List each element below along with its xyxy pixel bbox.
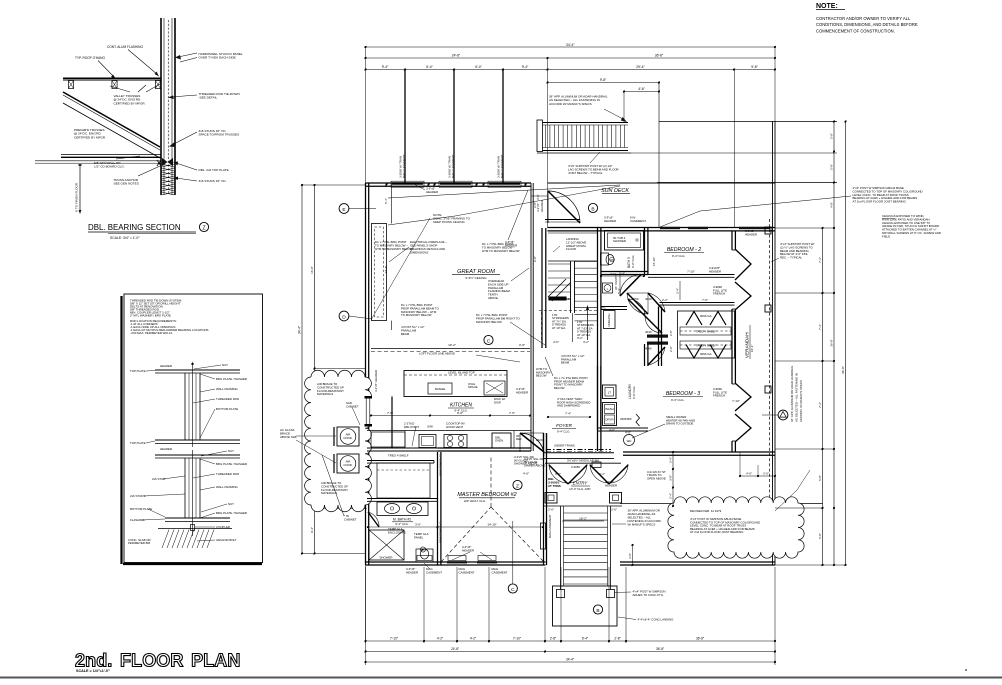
svg-text:4′-4″x6′-4″ CONC LANDING: 4′-4″x6′-4″ CONC LANDING — [638, 618, 675, 622]
under trans dashed — [546, 449, 611, 451]
svg-text:5/8″ DRYWALL OR 1/2″ CD BOARD: 5/8″ DRYWALL OR 1/2″ CD BOARD CLG. — [94, 161, 125, 169]
foyer door arc top — [520, 432, 544, 434]
svg-text:BOTTOM PLATE: BOTTOM PLATE — [216, 407, 238, 411]
svg-text:14′-10″: 14′-10″ — [487, 523, 496, 527]
title: 2nd. FLOOR PLAN — [75, 651, 241, 674]
bifold top — [686, 312, 702, 326]
svg-text:24′-8″: 24′-8″ — [452, 54, 461, 58]
closet outline — [678, 311, 735, 358]
svg-text:36″ APP. ALUMINUM OR ADAR HAND: 36″ APP. ALUMINUM OR ADAR HANDRAIL — [790, 365, 794, 422]
svg-text:FOYER: FOYER — [556, 423, 573, 428]
circle L — [606, 294, 608, 296]
deck step edge — [545, 219, 580, 221]
svg-text:UNDER TREAD: UNDER TREAD — [549, 297, 570, 301]
sun deck boundary — [548, 182, 776, 184]
svg-text:NUT: NUT — [228, 502, 234, 506]
bottom wall with windows — [366, 561, 546, 563]
verandah posts — [765, 227, 771, 234]
svg-text:HEADER: HEADER — [160, 364, 172, 368]
circle A — [778, 410, 788, 420]
svg-text:HEADER: HEADER — [160, 447, 172, 451]
svg-text:COND.: COND. — [343, 436, 353, 440]
svg-text:3′-6″: 3′-6″ — [415, 523, 421, 527]
svg-text:COND.: COND. — [343, 463, 353, 467]
svg-text:UNDER TRANS: UNDER TRANS — [554, 444, 575, 448]
svg-text:9080 TEMP’D GL.: 9080 TEMP’D GL. — [439, 519, 443, 543]
hall door arcs — [627, 292, 648, 294]
bedroom2 west wall — [644, 228, 646, 275]
svg-text:AS SELECTED – ALL FASTENING IN: AS SELECTED – ALL FASTENING IN — [795, 373, 799, 422]
verandah east wall — [731, 231, 733, 250]
svg-text:LT: LT — [608, 391, 611, 395]
detail: DBL. BEARING SECTION — [35, 18, 175, 214]
svg-text:2′-0″: 2′-0″ — [533, 202, 537, 208]
svg-text:C: C — [487, 338, 491, 344]
ac condenser 2 — [337, 454, 359, 473]
small rects near foyer top (black) — [592, 462, 601, 468]
wc toilet bottom — [416, 549, 433, 562]
interior dim lines bedrooms — [679, 281, 681, 300]
svg-text:9′-4″ CLG.: 9′-4″ CLG. — [671, 398, 684, 402]
svg-text:9′-0″: 9′-0″ — [533, 256, 537, 262]
svg-text:2′-8″: 2′-8″ — [614, 637, 621, 641]
revision cloud left — [305, 370, 372, 511]
svg-text:HEADER: HEADER — [540, 200, 544, 212]
exterior wall left — [365, 183, 367, 565]
svg-text:7′-10″: 7′-10″ — [732, 399, 740, 403]
bath2 door arc — [368, 512, 379, 527]
svg-text:7′-4″: 7′-4″ — [818, 402, 822, 408]
svg-text:TOP PLATE: TOP PLATE — [130, 441, 146, 445]
exterior wall top with windows — [366, 182, 532, 184]
mbr east wall — [543, 433, 545, 452]
svg-text:5′-4″: 5′-4″ — [384, 198, 388, 204]
svg-text:8¾ x 7 PSL BRG POINT TO MASONR: 8¾ x 7 PSL BRG POINT TO MASONRY BELOW – … — [375, 240, 413, 251]
svg-text:MAG CASEMENT: MAG CASEMENT — [500, 154, 504, 178]
svg-text:36′-8″: 36′-8″ — [830, 339, 834, 346]
svg-text:34′-4″: 34′-4″ — [298, 325, 302, 334]
svg-text:5′-8″: 5′-8″ — [830, 164, 834, 170]
circle D — [339, 311, 349, 321]
svg-text:36′-8″: 36′-8″ — [841, 365, 845, 374]
svg-text:29′-4″: 29′-4″ — [636, 65, 645, 69]
svg-text:TREO 4 SHELF: TREO 4 SHELF — [388, 454, 409, 458]
svg-text:2′-8″: 2′-8″ — [550, 637, 557, 641]
circle B deck — [588, 203, 597, 212]
ac condenser 1 — [337, 427, 359, 446]
svg-text:HIP VAULT CLG.: HIP VAULT CLG. — [464, 499, 486, 503]
svg-text:2′-2″: 2′-2″ — [662, 298, 668, 302]
svg-text:WALL FRAMING: WALL FRAMING — [216, 485, 239, 489]
svg-text:TREO 4 SHELF: TREO 4 SHELF — [696, 344, 717, 348]
svg-text:2′-4″: 2′-4″ — [669, 457, 673, 463]
svg-text:VALLEY TRUSSES @ 24″OC. ENG’RD: VALLEY TRUSSES @ 24″OC. ENG’RD CERTIFIED… — [114, 94, 146, 105]
svg-text:19′-2″: 19′-2″ — [448, 343, 457, 347]
wh circle — [624, 435, 635, 446]
svg-text:DBL. 2x6 TOP PLATE: DBL. 2x6 TOP PLATE — [199, 168, 229, 172]
detail A annotations — [74, 45, 243, 186]
svg-text:34′-4″: 34′-4″ — [566, 43, 575, 47]
revision cloud bottom — [668, 497, 804, 558]
washer dryer — [603, 403, 617, 426]
bedroom2 south wall — [648, 274, 735, 276]
foyer door arc — [519, 433, 521, 452]
svg-text:BEDROOM - 3: BEDROOM - 3 — [666, 391, 700, 397]
svg-text:REVISED FEB. 12 1979: REVISED FEB. 12 1979 — [690, 509, 722, 513]
svg-text:MAG CASEMENT: MAG CASEMENT — [548, 514, 552, 538]
dim row bottom overall — [366, 661, 776, 663]
svg-text:MAG CASEMENT: MAG CASEMENT — [402, 154, 406, 178]
svg-text:9080 TEMP’D GL.: 9080 TEMP’D GL. — [439, 452, 443, 476]
svg-text:PREFAB’D TRUSSES @ 24″OC. ENG’: PREFAB’D TRUSSES @ 24″OC. ENG’RD CERTIFI… — [74, 128, 106, 139]
kitchen south wall / mbr north — [438, 447, 532, 449]
deck edge lines right — [659, 121, 837, 123]
svg-text:7′-10″: 7′-10″ — [390, 637, 399, 641]
svg-text:9′-6″: 9′-6″ — [457, 411, 463, 415]
cooktop — [444, 435, 467, 448]
entry stair — [560, 506, 562, 586]
verandah screen dashed — [769, 219, 771, 503]
svg-text:B: B — [596, 608, 599, 614]
great room leader diagonals — [388, 185, 620, 198]
entry posts — [545, 493, 557, 504]
svg-text:5′-4″: 5′-4″ — [617, 288, 621, 294]
svg-text:7′-4″: 7′-4″ — [565, 412, 571, 416]
entry arcs — [549, 464, 568, 483]
svg-text:NOTE:: NOTE: — [816, 3, 838, 10]
svg-text:4′-2″: 4′-2″ — [470, 637, 477, 641]
svg-text:4′-6″: 4′-6″ — [523, 472, 529, 476]
stairwell walls — [541, 228, 543, 348]
svg-text:36′-8″: 36′-8″ — [655, 54, 664, 58]
svg-text:VERANDAH: VERANDAH — [745, 332, 750, 358]
svg-text:9′-4″: 9′-4″ — [382, 65, 389, 69]
svg-text:MASTER BEDROOM #2: MASTER BEDROOM #2 — [457, 492, 516, 498]
svg-text:TYP. ROOF O′HANG: TYP. ROOF O′HANG — [75, 56, 105, 60]
svg-text:6′-4″: 6′-4″ — [426, 65, 433, 69]
fireplace — [372, 224, 387, 321]
svg-text:4040: 4040 — [645, 330, 652, 334]
svg-text:DRYR: DRYR — [605, 418, 613, 422]
svg-text:BRG PLATE / WASHER: BRG PLATE / WASHER — [216, 511, 247, 515]
great room east wall — [530, 183, 532, 306]
dim extensions bottom — [365, 567, 367, 643]
svg-text:2620: 2620 — [536, 438, 543, 442]
fridge corner — [513, 431, 515, 449]
hall walls — [601, 306, 627, 308]
svg-text:9090 GA.: 9090 GA. — [700, 314, 712, 318]
svg-text:COOKTOP W/ HOOD VENT: COOKTOP W/ HOOD VENT — [446, 422, 466, 429]
svg-text:2′-8″: 2′-8″ — [669, 346, 673, 352]
stair treads — [570, 261, 572, 313]
dim row bottom segments — [366, 640, 776, 642]
svg-text:LINEN/SH: LINEN/SH — [607, 314, 611, 327]
svg-text:24′-8″: 24′-8″ — [451, 647, 460, 651]
svg-text:4′-2″: 4′-2″ — [437, 637, 444, 641]
svg-text:9′-8″: 9′-8″ — [600, 78, 607, 82]
svg-text:3′-8″: 3′-8″ — [669, 475, 673, 481]
svg-text:9′-4″ CLG.: 9′-4″ CLG. — [672, 254, 685, 258]
svg-text:SCALE: 3/4″ = 1′-0″: SCALE: 3/4″ = 1′-0″ — [110, 236, 140, 240]
bedroom3 west wall — [644, 344, 646, 366]
svg-text:WC: WC — [610, 258, 615, 262]
svg-text:CONT. ALUM FLASHING: CONT. ALUM FLASHING — [107, 45, 143, 49]
stair break line — [548, 279, 566, 297]
svg-text:7′-6″: 7′-6″ — [509, 411, 515, 415]
circle C below — [508, 584, 517, 593]
foyer west wall — [543, 433, 545, 565]
svg-text:9′-4″ CLG.: 9′-4″ CLG. — [395, 522, 408, 526]
svg-text:9090 GA.: 9090 GA. — [700, 352, 712, 356]
svg-text:2668: 2668 — [544, 531, 548, 538]
svg-text:CONC. SLAB OR PERIMETER BM: CONC. SLAB OR PERIMETER BM — [128, 538, 151, 545]
svg-text:ENTRY: ENTRY — [573, 481, 589, 486]
modular bm — [544, 452, 614, 454]
svg-text:9F TUB 4 SHOWER: 9F TUB 4 SHOWER — [613, 236, 626, 243]
svg-text:36′-8″: 36′-8″ — [696, 637, 705, 641]
svg-text:TOP PLATE: TOP PLATE — [130, 369, 146, 373]
svg-text:D: D — [342, 314, 346, 320]
svg-text:2′-6″: 2′-6″ — [548, 508, 554, 512]
left wall window — [364, 398, 373, 424]
svg-text:2668 BIF: 2668 BIF — [620, 417, 632, 421]
svg-text:9′-4″: 9′-4″ — [522, 65, 529, 69]
dimension row top overall 34-4 — [366, 46, 776, 48]
svg-text:3-3″x5″ HEADER: 3-3″x5″ HEADER — [374, 370, 378, 392]
circle B stair — [593, 605, 602, 614]
svg-text:2nd. FLOOR PLAN: 2nd. FLOOR PLAN — [75, 651, 241, 671]
svg-text:3′-2″: 3′-2″ — [583, 340, 589, 344]
svg-text:NUT: NUT — [228, 449, 234, 453]
dim row bottom mid — [366, 651, 776, 653]
svg-text:E: E — [342, 207, 345, 213]
svg-text:BOTTOM PLATE: BOTTOM PLATE — [130, 507, 152, 511]
svg-text:9′-6½″ CEILING: 9′-6½″ CEILING — [465, 276, 487, 280]
riser dark — [549, 297, 567, 301]
kitchen island — [404, 371, 507, 397]
dim col right outer — [845, 122, 847, 566]
svg-text:Z: Z — [516, 483, 519, 489]
verandah bottom wall — [620, 561, 775, 563]
svg-text:36″ VANITY: 36″ VANITY — [614, 275, 618, 290]
svg-text:4040: 4040 — [645, 297, 652, 301]
svg-text:34′-4″: 34′-4″ — [566, 658, 575, 662]
circle Z — [513, 480, 522, 489]
svg-text:10′-0″ CLG. APP.: 10′-0″ CLG. APP. — [569, 487, 591, 491]
svg-text:WH: WH — [627, 439, 632, 443]
hip vault dashed — [441, 507, 491, 562]
kitchen stud post line — [391, 397, 393, 449]
dimension deck 4-6 — [624, 91, 659, 93]
note block — [816, 3, 919, 33]
svg-text:2′-4″: 2′-4″ — [669, 493, 673, 499]
svg-text:5′-8″: 5′-8″ — [818, 475, 822, 481]
right dim extensions — [775, 564, 846, 566]
svg-text:C: C — [511, 587, 515, 593]
verandah south strip — [620, 503, 823, 505]
closet wall north — [660, 302, 735, 304]
hall east wall — [658, 307, 660, 367]
laundry walls — [597, 366, 599, 430]
svg-text:ACCORD. W/ MANUF’S SPECS: ACCORD. W/ MANUF’S SPECS — [799, 380, 803, 422]
svg-text:6′-4″: 6′-4″ — [475, 65, 482, 69]
landing — [548, 232, 598, 234]
svg-text:DBL. BEARING SECTION: DBL. BEARING SECTION — [88, 223, 181, 232]
detail A title — [88, 222, 209, 240]
laundry LT — [603, 385, 617, 399]
dim col right mid — [833, 122, 835, 566]
svg-text:WASH: WASH — [605, 407, 614, 411]
svg-text:3′-8″: 3′-8″ — [628, 553, 632, 559]
svg-text:THREADED ROD: THREADED ROD — [216, 397, 239, 401]
svg-text:5′-8″: 5′-8″ — [818, 533, 822, 539]
bedroom3 south wall — [623, 451, 775, 453]
svg-text:9′-8″: 9′-8″ — [751, 65, 758, 69]
svg-text:TREO 4 SHELF: TREO 4 SHELF — [696, 330, 717, 334]
svg-text:8′ TO FINISH FLOOR: 8′ TO FINISH FLOOR — [75, 182, 79, 212]
svg-text:4′-6″: 4′-6″ — [519, 343, 526, 347]
svg-text:THREADED ROD: THREADED ROD — [216, 472, 239, 476]
svg-text:Z: Z — [202, 226, 205, 232]
svg-text:3′-0″: 3′-0″ — [536, 194, 540, 200]
french doors bedroom3 — [735, 383, 751, 411]
svg-text:16′-8″: 16′-8″ — [310, 266, 314, 274]
svg-text:3-3050: 3-3050 — [571, 465, 580, 469]
svg-text:4″x4″ POST W SIMPSON ADHES TO: 4″x4″ POST W SIMPSON ADHES TO CONC FTG. — [633, 590, 667, 597]
bedroom3 door arc — [647, 344, 649, 365]
svg-text:BRG PLATE / WASHER: BRG PLATE / WASHER — [216, 377, 247, 381]
dimension column left — [301, 185, 303, 554]
svg-text:SHOWER: SHOWER — [379, 556, 392, 560]
dbl oven — [492, 433, 511, 448]
leader to cabinet — [352, 407, 360, 425]
french doors bedroom2 (chevrons) — [735, 249, 751, 280]
svg-text:6′-4″: 6′-4″ — [582, 637, 589, 641]
svg-text:COUPLER: COUPLER — [216, 525, 230, 529]
svg-text:OAK: OAK — [427, 425, 433, 429]
svg-text:7′-6″: 7′-6″ — [702, 298, 708, 302]
porch edge — [544, 505, 623, 507]
bath5 dims — [601, 275, 644, 277]
circle C great room — [484, 335, 493, 344]
linen xbox — [369, 530, 404, 560]
svg-text:7′-4″: 7′-4″ — [818, 324, 822, 330]
svg-text:B: B — [591, 206, 594, 212]
bedroom2 door arc — [647, 293, 649, 314]
mag casement window east — [541, 523, 546, 549]
stair landing — [553, 586, 618, 626]
svg-text:15′-8″: 15′-8″ — [384, 266, 388, 273]
svg-text:M. BATH #2: M. BATH #2 — [393, 518, 411, 522]
svg-text:NUT: NUT — [222, 363, 228, 367]
svg-text:4′-6″: 4′-6″ — [553, 340, 559, 344]
svg-text:HEADER: HEADER — [605, 483, 617, 487]
stair up arrow — [587, 307, 589, 340]
bath5 toilet — [601, 253, 609, 265]
svg-text:WC: WC — [421, 548, 426, 552]
svg-text:LOFT FLOOR LINE ABOVE: LOFT FLOOR LINE ABOVE — [419, 352, 455, 356]
door leaves — [549, 465, 568, 484]
bifold bottom — [686, 345, 702, 359]
bath5 tub — [605, 231, 644, 251]
pantry walls — [367, 460, 434, 462]
svg-text:2′-4″: 2′-4″ — [676, 288, 680, 294]
svg-text:2x6 STUDS: 2x6 STUDS — [130, 494, 145, 498]
svg-text:9′-0″ CLG.: 9′-0″ CLG. — [631, 255, 635, 268]
loft line — [371, 348, 530, 350]
svg-text:10′-4″: 10′-4″ — [750, 345, 754, 352]
dimension deck stair 9-8 — [548, 82, 660, 84]
svg-text:7′-4″: 7′-4″ — [818, 257, 822, 263]
foyer arch — [628, 299, 645, 316]
dim col right inner — [822, 228, 824, 565]
svg-text:9′-0″ CLG.: 9′-0″ CLG. — [632, 386, 636, 399]
toilet window — [417, 556, 432, 561]
bath5 door — [619, 275, 621, 297]
deck door arc — [547, 191, 549, 223]
svg-text:GREAT ROOM: GREAT ROOM — [457, 269, 495, 275]
dn dashed — [539, 310, 599, 312]
circle E — [339, 204, 349, 214]
linen closet — [604, 311, 616, 329]
svg-text:LEVEL ISLAND TOP: LEVEL ISLAND TOP — [448, 371, 475, 375]
svg-text:2′-6″: 2′-6″ — [763, 472, 769, 476]
bath5/hall wall — [601, 271, 648, 273]
svg-text:3-9′x6′8″ HEADER: 3-9′x6′8″ HEADER — [709, 266, 721, 273]
dimension row top 24-8 / 36-8 — [366, 57, 776, 59]
svg-text:RANGE: RANGE — [435, 387, 445, 391]
svg-text:9′-4″ CLG.: 9′-4″ CLG. — [557, 430, 570, 434]
shelves dashed — [680, 327, 731, 335]
dimension row top segments — [366, 69, 776, 71]
bath2 walls — [367, 498, 438, 500]
bath5 sink — [603, 283, 613, 293]
svg-text:9′-4″: 9′-4″ — [310, 527, 314, 533]
kitchen dim row — [371, 415, 530, 417]
deck stair railing — [537, 120, 543, 152]
svg-text:2′-8″: 2′-8″ — [669, 330, 673, 336]
kitchen counter — [367, 430, 531, 432]
svg-text:3x6 STUDS 16″ OC.: 3x6 STUDS 16″ OC. — [199, 179, 227, 183]
svg-text:BEDROOM - 2: BEDROOM - 2 — [667, 247, 701, 253]
svg-text:15′-10″: 15′-10″ — [652, 257, 656, 266]
dim 4-6 2-6 bottom right of bedroom3 — [740, 475, 775, 477]
page border bottom — [0, 677, 1002, 679]
svg-text:5′-8″: 5′-8″ — [830, 133, 834, 139]
kitchen sink — [419, 435, 436, 448]
svg-text:BRG PLATE / WASHER: BRG PLATE / WASHER — [216, 462, 247, 466]
svg-text:SCALE = 1/4″=1′-0″: SCALE = 1/4″=1′-0″ — [76, 669, 110, 673]
detail: threaded rod tie down box — [122, 294, 263, 564]
svg-text:7′-10″: 7′-10″ — [513, 637, 522, 641]
dimension extension lines top — [365, 47, 367, 183]
svg-text:TRUSS ANCHOR SEE GEN NOTES: TRUSS ANCHOR SEE GEN NOTES — [114, 178, 139, 186]
svg-text:36′-8″: 36′-8″ — [656, 647, 665, 651]
stair dim vertical — [632, 545, 634, 565]
master bedroom west wall — [437, 452, 439, 565]
bedroom2 north wall — [548, 227, 776, 229]
svg-text:4′-6″: 4′-6″ — [746, 472, 752, 476]
svg-text:WALL FRAMING: WALL FRAMING — [216, 387, 239, 391]
svg-text:2′-6″: 2′-6″ — [611, 508, 617, 512]
svg-text:4′-6″: 4′-6″ — [638, 87, 645, 91]
svg-text:7′-10″: 7′-10″ — [687, 270, 695, 274]
svg-text:ANCHOR BOLT: ANCHOR BOLT — [216, 538, 237, 542]
svg-text:MAG CASEMENT: MAG CASEMENT — [451, 154, 455, 178]
mbath vanity — [377, 502, 428, 516]
svg-text:4′-8″: 4′-8″ — [830, 202, 834, 208]
